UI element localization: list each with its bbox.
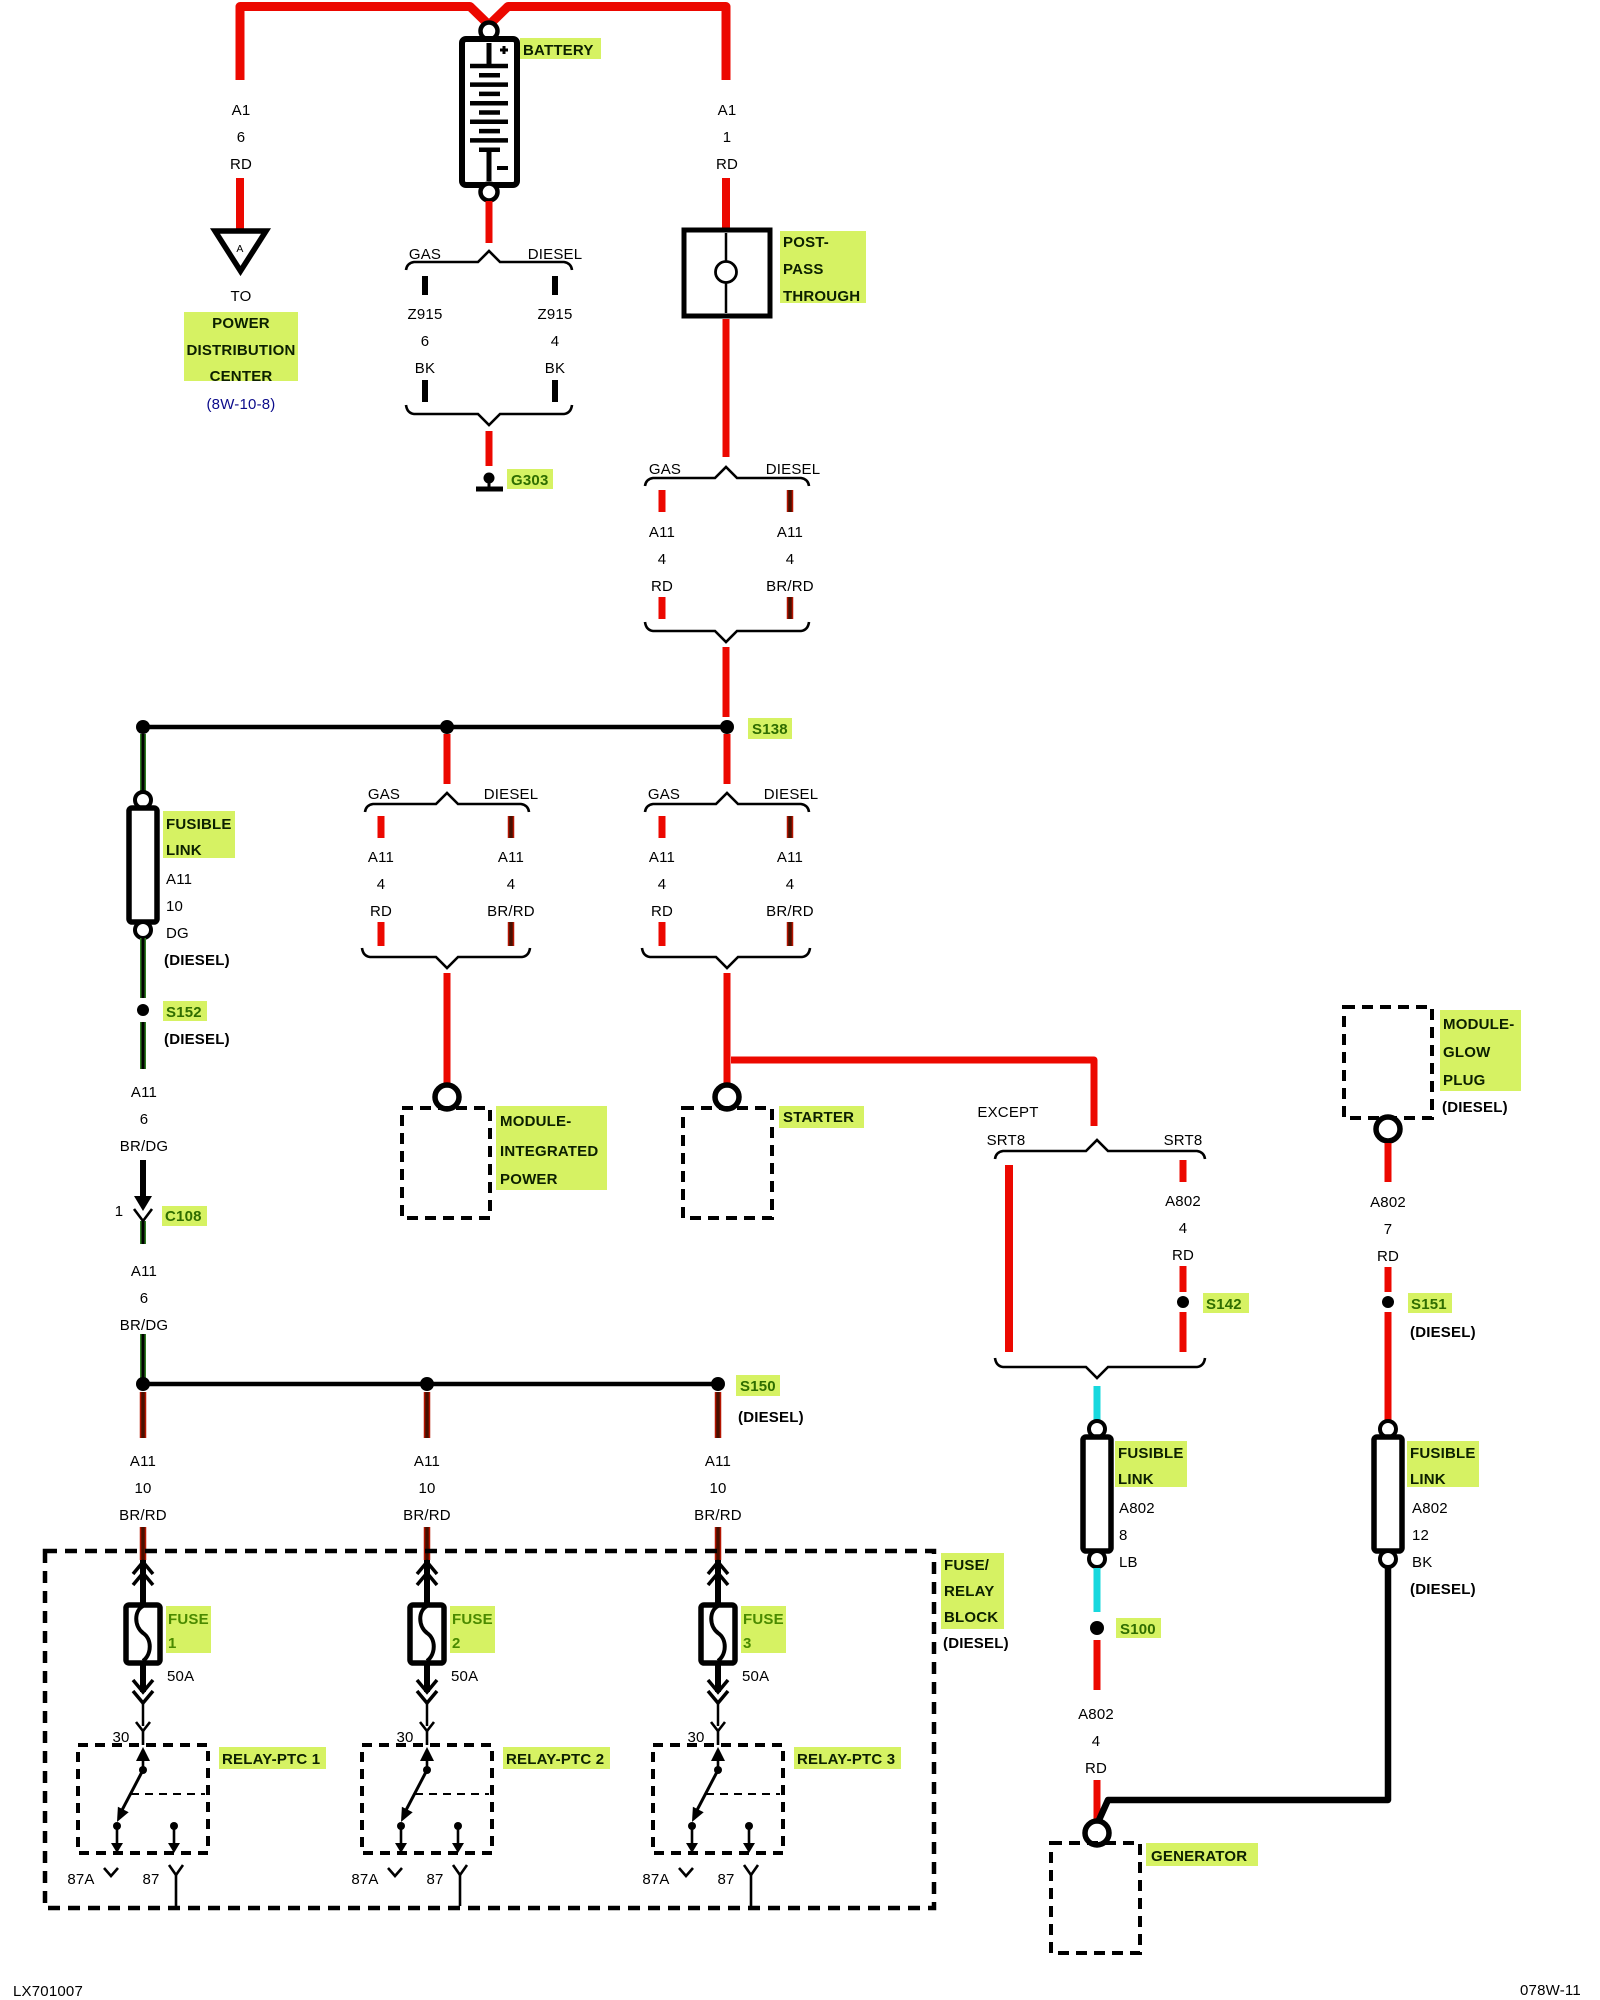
svg-text:A11: A11 bbox=[414, 1453, 440, 1470]
svg-text:A11: A11 bbox=[777, 849, 803, 866]
svg-text:(8W-10-8): (8W-10-8) bbox=[206, 396, 275, 413]
svg-text:87: 87 bbox=[426, 1871, 443, 1888]
svg-text:DIESEL: DIESEL bbox=[766, 461, 821, 478]
svg-text:A11: A11 bbox=[649, 524, 675, 541]
svg-text:DG: DG bbox=[166, 925, 189, 942]
svg-text:12: 12 bbox=[1412, 1527, 1429, 1544]
svg-text:87A: 87A bbox=[67, 1871, 94, 1888]
svg-text:POWER: POWER bbox=[500, 1171, 558, 1188]
svg-text:A11: A11 bbox=[777, 524, 803, 541]
svg-text:PLUG: PLUG bbox=[1443, 1072, 1485, 1089]
svg-text:FUSIBLE: FUSIBLE bbox=[1118, 1445, 1184, 1462]
svg-text:RELAY-PTC 2: RELAY-PTC 2 bbox=[506, 1751, 604, 1768]
svg-text:(DIESEL): (DIESEL) bbox=[1410, 1324, 1476, 1341]
svg-text:RD: RD bbox=[651, 903, 673, 920]
svg-text:A11: A11 bbox=[705, 1453, 731, 1470]
svg-text:BR/DG: BR/DG bbox=[120, 1138, 169, 1155]
svg-text:1: 1 bbox=[723, 129, 732, 146]
svg-text:MODULE-: MODULE- bbox=[500, 1113, 571, 1130]
svg-text:(DIESEL): (DIESEL) bbox=[1410, 1581, 1476, 1598]
svg-text:A802: A802 bbox=[1412, 1500, 1448, 1517]
svg-text:6: 6 bbox=[140, 1290, 149, 1307]
svg-text:RD: RD bbox=[230, 156, 252, 173]
svg-text:FUSE: FUSE bbox=[168, 1611, 209, 1628]
svg-text:1: 1 bbox=[115, 1203, 124, 1220]
svg-text:078W-11: 078W-11 bbox=[1520, 1982, 1581, 1999]
svg-text:6: 6 bbox=[140, 1111, 149, 1128]
svg-text:A802: A802 bbox=[1370, 1194, 1406, 1211]
svg-text:DIESEL: DIESEL bbox=[764, 786, 819, 803]
svg-text:GAS: GAS bbox=[368, 786, 400, 803]
svg-text:87: 87 bbox=[717, 1871, 734, 1888]
svg-text:SRT8: SRT8 bbox=[987, 1132, 1026, 1149]
svg-text:BR/RD: BR/RD bbox=[119, 1507, 167, 1524]
svg-text:LX701007: LX701007 bbox=[13, 1983, 83, 2000]
svg-text:RD: RD bbox=[1377, 1248, 1399, 1265]
svg-text:GAS: GAS bbox=[409, 246, 441, 263]
svg-text:GENERATOR: GENERATOR bbox=[1151, 1848, 1247, 1865]
svg-text:PASS: PASS bbox=[783, 261, 824, 278]
svg-text:6: 6 bbox=[421, 333, 430, 350]
svg-text:FUSIBLE: FUSIBLE bbox=[1410, 1445, 1476, 1462]
svg-text:4: 4 bbox=[786, 876, 795, 893]
svg-text:RELAY-PTC 3: RELAY-PTC 3 bbox=[797, 1751, 895, 1768]
svg-text:FUSE: FUSE bbox=[743, 1611, 784, 1628]
svg-text:2: 2 bbox=[452, 1635, 461, 1652]
svg-text:A1: A1 bbox=[718, 102, 737, 119]
svg-text:GLOW: GLOW bbox=[1443, 1044, 1491, 1061]
svg-text:1: 1 bbox=[168, 1635, 177, 1652]
svg-text:A: A bbox=[236, 243, 243, 255]
svg-text:(DIESEL): (DIESEL) bbox=[1442, 1099, 1508, 1116]
svg-text:A1: A1 bbox=[232, 102, 251, 119]
svg-text:S150: S150 bbox=[740, 1378, 776, 1395]
svg-text:FUSE: FUSE bbox=[452, 1611, 493, 1628]
svg-text:10: 10 bbox=[166, 898, 183, 915]
svg-text:DIESEL: DIESEL bbox=[484, 786, 539, 803]
svg-text:EXCEPT: EXCEPT bbox=[977, 1104, 1038, 1121]
svg-text:10: 10 bbox=[709, 1480, 726, 1497]
svg-text:S151: S151 bbox=[1411, 1296, 1447, 1313]
svg-text:INTEGRATED: INTEGRATED bbox=[500, 1143, 598, 1160]
svg-text:3: 3 bbox=[743, 1635, 752, 1652]
svg-text:4: 4 bbox=[551, 333, 560, 350]
svg-text:A11: A11 bbox=[649, 849, 675, 866]
svg-text:8: 8 bbox=[1119, 1527, 1128, 1544]
svg-text:A11: A11 bbox=[368, 849, 394, 866]
svg-text:A11: A11 bbox=[130, 1453, 156, 1470]
svg-text:THROUGH: THROUGH bbox=[783, 288, 860, 305]
svg-text:A802: A802 bbox=[1165, 1193, 1201, 1210]
svg-text:FUSIBLE: FUSIBLE bbox=[166, 816, 232, 833]
svg-text:RD: RD bbox=[370, 903, 392, 920]
svg-text:BR/RD: BR/RD bbox=[694, 1507, 742, 1524]
svg-text:4: 4 bbox=[1179, 1220, 1188, 1237]
svg-text:RD: RD bbox=[651, 578, 673, 595]
svg-text:(DIESEL): (DIESEL) bbox=[738, 1409, 804, 1426]
svg-text:(DIESEL): (DIESEL) bbox=[943, 1635, 1009, 1652]
svg-text:4: 4 bbox=[658, 876, 667, 893]
svg-text:BR/DG: BR/DG bbox=[120, 1317, 169, 1334]
svg-text:87: 87 bbox=[142, 1871, 159, 1888]
svg-text:50A: 50A bbox=[451, 1668, 478, 1685]
svg-text:A11: A11 bbox=[166, 871, 192, 888]
svg-text:BR/RD: BR/RD bbox=[403, 1507, 451, 1524]
svg-text:10: 10 bbox=[418, 1480, 435, 1497]
svg-text:S152: S152 bbox=[166, 1004, 202, 1021]
svg-text:BATTERY: BATTERY bbox=[523, 42, 594, 59]
svg-text:A802: A802 bbox=[1119, 1500, 1155, 1517]
svg-text:S142: S142 bbox=[1206, 1296, 1242, 1313]
svg-text:(DIESEL): (DIESEL) bbox=[164, 952, 230, 969]
svg-text:GAS: GAS bbox=[648, 786, 680, 803]
svg-text:DISTRIBUTION: DISTRIBUTION bbox=[186, 342, 295, 359]
svg-text:RD: RD bbox=[1085, 1760, 1107, 1777]
svg-text:6: 6 bbox=[237, 129, 246, 146]
svg-text:Z915: Z915 bbox=[408, 306, 443, 323]
svg-text:A11: A11 bbox=[131, 1263, 157, 1280]
svg-text:4: 4 bbox=[786, 551, 795, 568]
svg-text:BR/RD: BR/RD bbox=[766, 903, 814, 920]
svg-text:STARTER: STARTER bbox=[783, 1109, 854, 1126]
svg-text:RELAY-PTC 1: RELAY-PTC 1 bbox=[222, 1751, 320, 1768]
svg-text:DIESEL: DIESEL bbox=[528, 246, 583, 263]
svg-text:BK: BK bbox=[1412, 1554, 1432, 1571]
svg-text:4: 4 bbox=[658, 551, 667, 568]
svg-text:RELAY: RELAY bbox=[944, 1583, 994, 1600]
svg-text:(DIESEL): (DIESEL) bbox=[164, 1031, 230, 1048]
svg-text:LINK: LINK bbox=[1410, 1471, 1446, 1488]
svg-text:BLOCK: BLOCK bbox=[944, 1609, 998, 1626]
svg-text:G303: G303 bbox=[511, 472, 549, 489]
svg-text:BR/RD: BR/RD bbox=[487, 903, 535, 920]
svg-text:BR/RD: BR/RD bbox=[766, 578, 814, 595]
svg-text:FUSE/: FUSE/ bbox=[944, 1557, 990, 1574]
svg-text:87A: 87A bbox=[642, 1871, 669, 1888]
svg-text:7: 7 bbox=[1384, 1221, 1393, 1238]
svg-text:10: 10 bbox=[134, 1480, 151, 1497]
svg-text:POWER: POWER bbox=[212, 315, 270, 332]
svg-text:4: 4 bbox=[377, 876, 386, 893]
svg-text:CENTER: CENTER bbox=[210, 368, 273, 385]
svg-text:RD: RD bbox=[1172, 1247, 1194, 1264]
svg-text:GAS: GAS bbox=[649, 461, 681, 478]
svg-text:TO: TO bbox=[231, 288, 252, 305]
svg-text:A11: A11 bbox=[498, 849, 524, 866]
svg-text:S100: S100 bbox=[1120, 1621, 1156, 1638]
svg-text:SRT8: SRT8 bbox=[1164, 1132, 1203, 1149]
svg-text:A11: A11 bbox=[131, 1084, 157, 1101]
svg-text:BK: BK bbox=[415, 360, 435, 377]
svg-text:A802: A802 bbox=[1078, 1706, 1114, 1723]
svg-text:50A: 50A bbox=[742, 1668, 769, 1685]
svg-text:BK: BK bbox=[545, 360, 565, 377]
svg-text:Z915: Z915 bbox=[538, 306, 573, 323]
svg-text:LINK: LINK bbox=[1118, 1471, 1154, 1488]
svg-text:4: 4 bbox=[507, 876, 516, 893]
svg-text:50A: 50A bbox=[167, 1668, 194, 1685]
svg-text:RD: RD bbox=[716, 156, 738, 173]
svg-text:S138: S138 bbox=[752, 721, 788, 738]
svg-text:LB: LB bbox=[1119, 1554, 1138, 1571]
svg-text:C108: C108 bbox=[165, 1208, 202, 1225]
svg-text:4: 4 bbox=[1092, 1733, 1101, 1750]
svg-text:87A: 87A bbox=[351, 1871, 378, 1888]
svg-text:MODULE-: MODULE- bbox=[1443, 1016, 1514, 1033]
svg-text:POST-: POST- bbox=[783, 234, 829, 251]
svg-text:LINK: LINK bbox=[166, 842, 202, 859]
